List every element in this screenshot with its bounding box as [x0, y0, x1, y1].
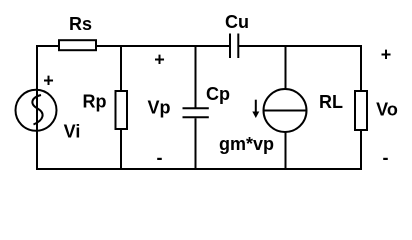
svg-text:Vo: Vo	[376, 100, 398, 120]
svg-text:Rs: Rs	[69, 14, 92, 34]
svg-text:+: +	[43, 71, 54, 91]
svg-text:gm*vp: gm*vp	[219, 134, 274, 154]
svg-text:RL: RL	[319, 92, 343, 112]
svg-text:Cu: Cu	[225, 12, 249, 32]
svg-text:+: +	[154, 50, 165, 70]
svg-text:-: -	[383, 148, 389, 168]
svg-text:Cp: Cp	[206, 84, 230, 104]
svg-text:Vi: Vi	[64, 122, 81, 142]
svg-text:-: -	[157, 148, 163, 168]
svg-text:Vp: Vp	[147, 98, 170, 118]
svg-text:+: +	[381, 45, 392, 65]
svg-text:Rp: Rp	[83, 92, 107, 112]
